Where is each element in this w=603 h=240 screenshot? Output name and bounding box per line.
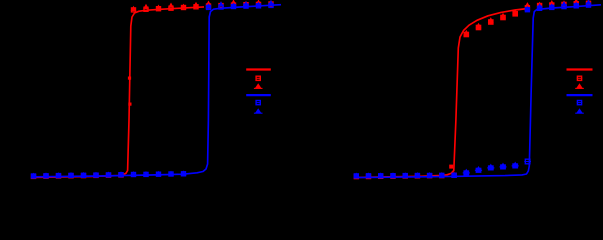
left blue fit line: [34, 5, 282, 177]
left red mid-transition blips: [128, 77, 131, 80]
right red fit line: [356, 9, 528, 178]
left legend: [246, 68, 271, 70]
left red data markers: [32, 174, 36, 178]
left red fit line: [34, 7, 205, 178]
right blue fit line: [356, 5, 601, 178]
left blue data markers: [32, 174, 36, 178]
right legend: [567, 68, 593, 70]
right blue data markers: [354, 174, 358, 178]
right red data markers: [354, 175, 358, 179]
right blue mid-transition square: [524, 161, 531, 163]
right red mid-transition blip: [449, 165, 453, 169]
